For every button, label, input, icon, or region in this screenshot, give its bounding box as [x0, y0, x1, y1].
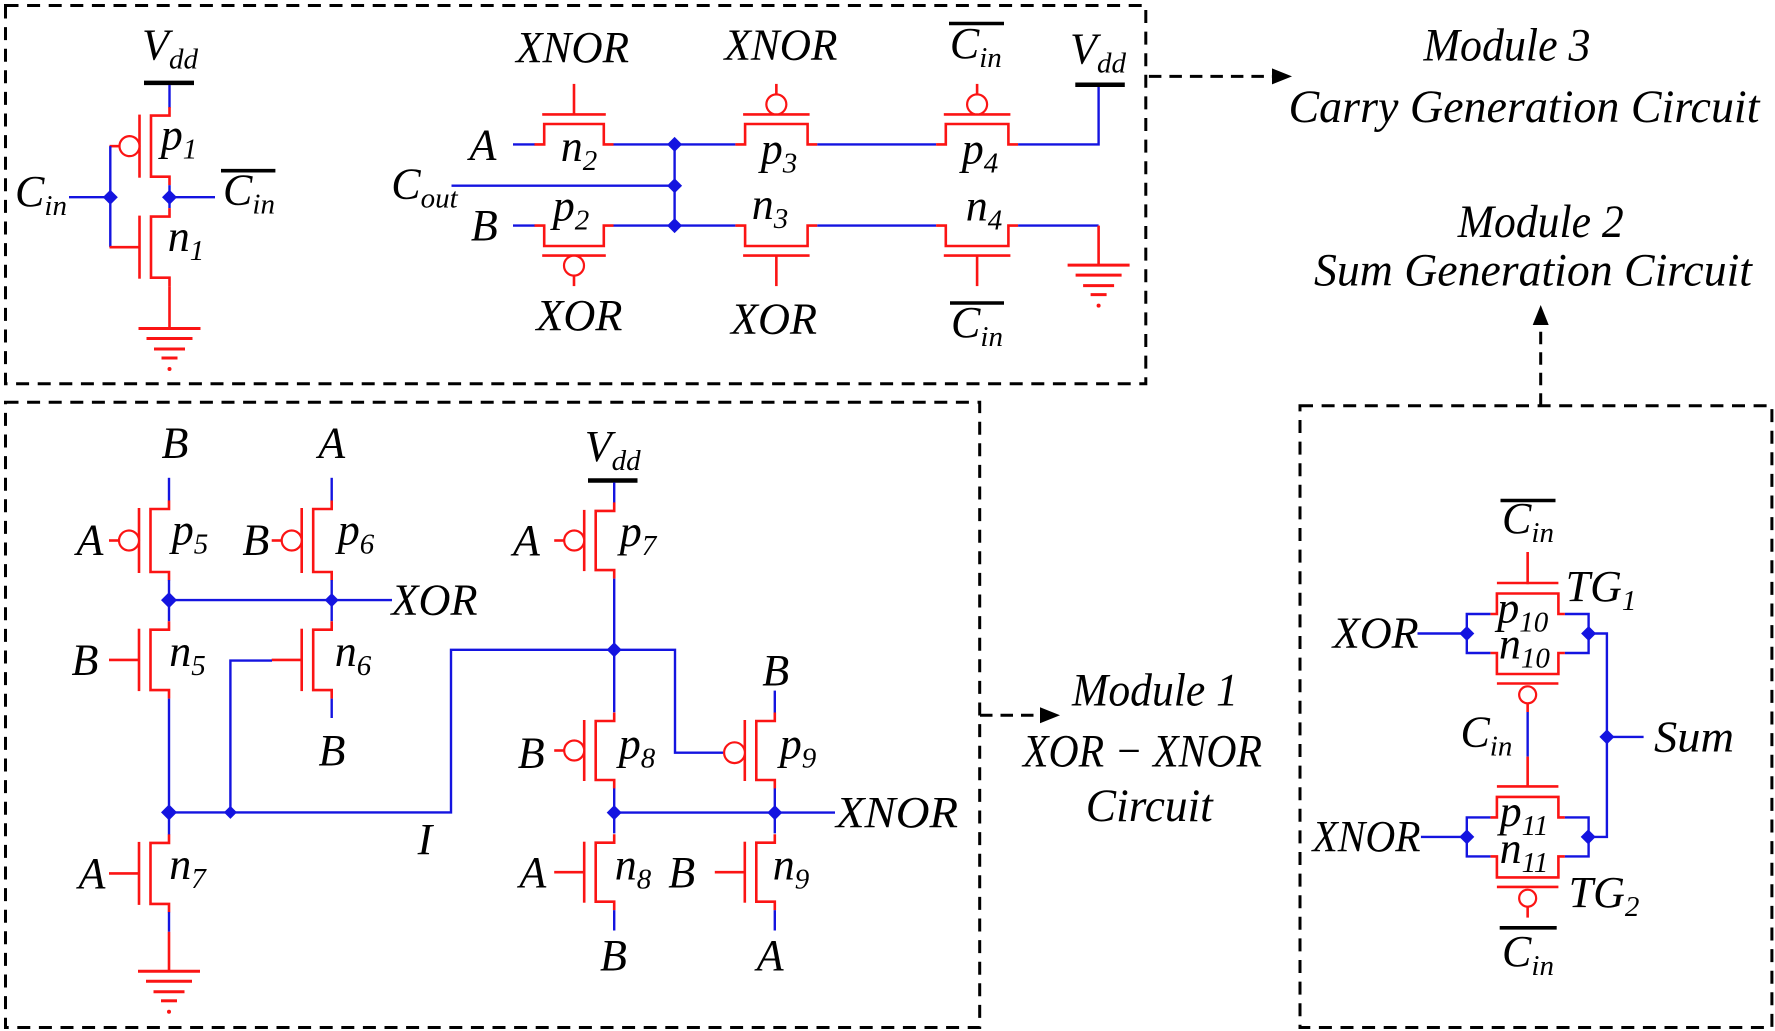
transistor p8 (PMOS) [596, 713, 615, 789]
wire n3 to n4 [817, 224, 936, 226]
svg-text:B: B [518, 728, 545, 777]
node I gate junction [224, 806, 237, 819]
Vdd rail (carry) [1075, 82, 1125, 87]
svg-text:B: B [162, 418, 189, 467]
wire to Sum label [1607, 736, 1644, 738]
node I left junction [161, 804, 177, 820]
node p7 junction [607, 642, 622, 657]
TG2 bottom gate bubble [1519, 890, 1536, 907]
svg-text:n5: n5 [169, 627, 206, 682]
svg-text:n2: n2 [561, 122, 598, 177]
wire p5 to XOR node [168, 580, 170, 621]
svg-text:XNOR: XNOR [514, 23, 629, 72]
svg-text:n6: n6 [335, 627, 372, 682]
svg-text:B: B [319, 726, 346, 775]
svg-text:B: B [72, 636, 99, 685]
wire p7 to node [613, 579, 615, 713]
box Module 2 sum generation circuit (dashed) [1300, 406, 1772, 1028]
transistor n3 (NMOS pass) [735, 226, 817, 246]
wire p1-n1 output [168, 185, 170, 208]
svg-text:XNOR: XNOR [723, 21, 838, 70]
wire XNOR row [614, 811, 835, 813]
svg-text:B: B [600, 931, 627, 980]
svg-text:Cin: Cin [1502, 927, 1554, 982]
wire p8 to XNOR node [613, 788, 615, 833]
wire Cout [452, 184, 675, 186]
wire A to p6 [331, 478, 333, 501]
transistor p4 (PMOS pass) [936, 124, 1018, 144]
node XOR left junction [161, 592, 177, 608]
transistor p7 (PMOS) [596, 502, 615, 578]
transmission gate TG2 (p11/n11) [1490, 797, 1565, 818]
node XOR right junction [325, 593, 339, 607]
svg-text:Vdd: Vdd [142, 21, 198, 76]
ground (module 1) [138, 970, 200, 973]
wire p3 to p4 [817, 143, 936, 145]
wire n4 to ground [1018, 224, 1099, 226]
wire n1 to ground [168, 286, 171, 328]
transistor n8 (NMOS) [596, 834, 615, 910]
svg-text:XNOR: XNOR [1311, 812, 1421, 861]
node Cout junction [667, 178, 682, 193]
wire center vertical [673, 144, 675, 225]
wire n6 gate riser [230, 661, 272, 813]
node TG2 right junction [1581, 829, 1596, 844]
wire B to p9 [774, 691, 776, 713]
box Module 1 XOR-XNOR circuit (dashed) [6, 402, 980, 1027]
svg-text:Sum Generation Circuit: Sum Generation Circuit [1314, 245, 1753, 297]
svg-text:Cin: Cin [15, 167, 67, 222]
node TG1 right junction [1581, 626, 1596, 641]
svg-text:Module 3: Module 3 [1423, 19, 1591, 71]
wire gate riser Cin [109, 146, 111, 247]
svg-text:XOR: XOR [729, 295, 817, 344]
transistor p5 (PMOS) [151, 501, 170, 581]
Vdd rail (inverter) [144, 81, 194, 86]
svg-text:XOR − XNOR: XOR − XNOR [1021, 726, 1262, 778]
svg-text:n9: n9 [773, 841, 810, 896]
transistor n7 (NMOS) [151, 834, 170, 912]
ground (carry) [1068, 264, 1130, 267]
svg-text:TG2: TG2 [1569, 868, 1640, 923]
wire TG1 out to Sum riser [1588, 634, 1607, 837]
wire n7 to ground [168, 912, 170, 932]
svg-text:B: B [242, 515, 269, 564]
transistor p3 (PMOS pass) [735, 124, 817, 144]
TG1 bottom gate bubble [1519, 686, 1536, 703]
transistor p2 (PMOS pass) [535, 226, 614, 246]
wire node I horizontal [169, 650, 614, 813]
wire XOR row [169, 599, 392, 601]
arrow to Module 3 text [1149, 75, 1274, 78]
svg-text:I: I [417, 815, 435, 864]
transistor n4 (NMOS pass) [936, 226, 1018, 246]
node Cin-bar junction [162, 190, 177, 205]
wire Vdd to p7 [613, 483, 615, 503]
wire p6 to XOR node [331, 580, 333, 621]
wire p2 to center node [614, 224, 675, 226]
svg-text:TG1: TG1 [1566, 562, 1637, 617]
svg-text:B: B [668, 848, 695, 897]
node XNOR right junction [767, 805, 782, 820]
transistor n5 (NMOS) [151, 621, 170, 698]
node TG2 left junction [1459, 829, 1474, 844]
svg-text:A: A [754, 931, 785, 980]
wire A to n2 [513, 143, 535, 145]
svg-text:Sum: Sum [1654, 713, 1734, 762]
transistor n2 (NMOS pass) [535, 124, 614, 144]
box Module 3 carry generation circuit (dashed) [6, 6, 1146, 384]
wire Vdd to p1 [168, 85, 170, 108]
svg-text:n1: n1 [168, 212, 205, 267]
svg-text:XOR: XOR [389, 576, 477, 625]
svg-text:XOR: XOR [534, 291, 622, 340]
wire p9 to XNOR node [774, 788, 776, 833]
svg-text:p3: p3 [758, 125, 798, 180]
svg-text:Module 1: Module 1 [1071, 665, 1238, 717]
svg-text:p5: p5 [169, 506, 209, 561]
svg-text:n3: n3 [752, 180, 789, 235]
svg-text:Cout: Cout [391, 160, 458, 215]
transistor n1 (NMOS) [151, 208, 170, 286]
label Cin-bar above TG1 [1501, 499, 1556, 503]
wire B to p2 [513, 224, 535, 226]
svg-text:Carry Generation Circuit: Carry Generation Circuit [1289, 81, 1761, 133]
node top junction [667, 137, 682, 152]
svg-text:Vdd: Vdd [1070, 25, 1126, 80]
svg-text:A: A [76, 849, 107, 898]
svg-text:B: B [762, 646, 789, 695]
wire ground drop (carry) [1097, 226, 1100, 266]
wire B to p5 [168, 478, 170, 501]
svg-text:Cin: Cin [223, 166, 275, 221]
label Cin-bar above p4 [949, 22, 1004, 26]
wire Cin-bar to TG1 gate [1526, 552, 1529, 584]
arrow to Module 2 text [1539, 323, 1542, 406]
wire XOR to TG1 [1418, 632, 1467, 634]
label Cin-bar [221, 169, 275, 173]
wire p4 to Vdd [1018, 85, 1099, 144]
svg-text:Vdd: Vdd [585, 422, 641, 477]
label Cin-bar below n4 [950, 301, 1004, 305]
transmission gate TG1 (p10/n10) [1490, 594, 1565, 615]
svg-text:Cin: Cin [1460, 707, 1512, 762]
wire XNOR to TG2 [1421, 836, 1467, 838]
svg-text:A: A [516, 848, 547, 897]
svg-text:B: B [471, 201, 498, 250]
wire TG2 gate to Cin-bar [1526, 907, 1529, 918]
svg-text:n8: n8 [615, 841, 652, 896]
wire n8 to B [613, 910, 615, 930]
transistor n6 (NMOS) [313, 621, 332, 698]
label Cin-bar below TG2 [1500, 926, 1557, 930]
svg-text:p6: p6 [335, 506, 375, 561]
wire center node to n3 [675, 224, 736, 226]
transistor p1 (PMOS) [151, 107, 170, 185]
svg-text:A: A [74, 515, 105, 564]
transistor p6 (PMOS) [313, 501, 332, 581]
wire n5 down to node I [168, 699, 170, 835]
svg-text:n7: n7 [169, 840, 207, 895]
svg-text:p9: p9 [777, 720, 817, 775]
wire Cin input [69, 196, 110, 198]
ground (inverter) [139, 327, 201, 330]
svg-text:p4: p4 [959, 125, 999, 180]
wire center node to p3 [675, 143, 736, 145]
Vdd rail (module 1) [588, 478, 638, 483]
svg-text:XOR: XOR [1331, 608, 1419, 657]
transistor p9 (PMOS) [756, 713, 775, 789]
arrow to Module 1 text [980, 714, 1042, 717]
wire n6 source to B [331, 699, 333, 718]
svg-text:Circuit: Circuit [1086, 780, 1214, 832]
svg-text:Cin: Cin [950, 19, 1002, 74]
svg-text:Cin: Cin [951, 298, 1003, 353]
node bottom junction [667, 218, 682, 233]
wire n9 to A [774, 910, 776, 930]
svg-text:p8: p8 [616, 720, 656, 775]
node XNOR left junction [607, 805, 622, 820]
node Sum junction [1599, 729, 1614, 744]
svg-text:p2: p2 [550, 181, 590, 236]
svg-text:A: A [467, 120, 498, 169]
svg-text:A: A [315, 418, 346, 467]
node TG1 left junction [1459, 626, 1474, 641]
wire node to p9 gate [614, 650, 723, 753]
svg-text:n4: n4 [966, 182, 1003, 237]
svg-text:Module 2: Module 2 [1457, 196, 1624, 248]
wire n2 to center node [614, 143, 675, 145]
svg-text:XNOR: XNOR [834, 788, 958, 837]
wire Cin gate link [1526, 703, 1529, 712]
wire to Cin-bar label [170, 196, 216, 198]
node Cin junction [103, 190, 118, 205]
transistor n9 (NMOS) [756, 834, 775, 910]
svg-text:p1: p1 [158, 111, 198, 166]
svg-text:A: A [510, 516, 541, 565]
svg-text:p7: p7 [617, 507, 658, 562]
